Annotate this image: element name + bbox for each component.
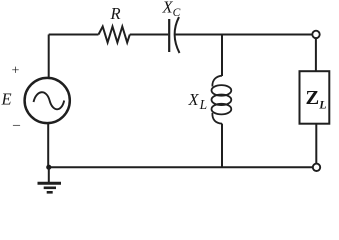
node: junction dot at ground tap xyxy=(46,165,51,170)
AC source E circle xyxy=(25,78,70,123)
resistor R xyxy=(99,27,130,43)
wire: inductor bottom to bottom rail xyxy=(221,124,223,168)
terminal: bottom-right open circle xyxy=(313,164,320,171)
svg-text:–: – xyxy=(12,118,21,133)
svg-text:ZL: ZL xyxy=(306,87,327,112)
AC source sine wave xyxy=(34,92,65,109)
wire: resistor to capacitor xyxy=(130,34,168,36)
wire: bottom rail xyxy=(48,166,313,168)
capacitor XC curved plate xyxy=(175,17,180,53)
svg-text:E: E xyxy=(1,90,12,109)
wire: top-left vertical from source to top rail xyxy=(48,35,50,79)
svg-text:R: R xyxy=(110,4,121,23)
svg-text:+: + xyxy=(12,64,20,79)
load ZL box xyxy=(300,71,330,124)
ground xyxy=(38,167,62,192)
terminal: top-right open circle xyxy=(312,31,319,38)
svg-text:XC: XC xyxy=(162,0,181,19)
wire: ZL box to bottom-right terminal xyxy=(315,124,317,164)
inductor XL coil xyxy=(212,76,232,124)
wire: top rail, source corner to resistor xyxy=(49,34,99,36)
wire: top-right terminal down to ZL box xyxy=(315,38,317,71)
capacitor XC left plate xyxy=(168,19,170,52)
wire: capacitor to top-right terminal xyxy=(176,34,313,36)
wire: source bottom to ground junction xyxy=(47,123,49,167)
node: inductor branch tap (T junction) xyxy=(221,35,223,77)
svg-text:XL: XL xyxy=(188,90,208,112)
